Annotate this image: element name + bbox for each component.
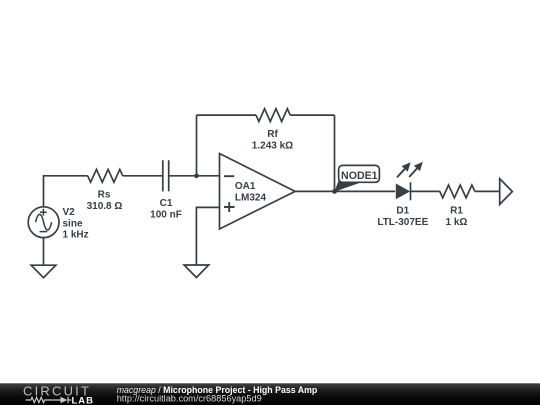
svg-text:1 kΩ: 1 kΩ	[446, 217, 468, 228]
svg-text:LAB: LAB	[72, 395, 95, 405]
footer logo schematic line	[26, 397, 72, 403]
wire C1 to op-amp inverting input	[170, 175, 220, 177]
svg-text:NODE1: NODE1	[341, 170, 378, 182]
svg-text:sine: sine	[63, 218, 83, 229]
svg-text:LTL-307EE: LTL-307EE	[377, 217, 428, 228]
svg-text:LM324: LM324	[235, 192, 267, 203]
LED D1 light arrow 2	[409, 162, 423, 177]
footer logo diode	[61, 397, 68, 403]
resistor Rf	[256, 109, 290, 122]
footer bar	[0, 383, 540, 405]
svg-text:100 nF: 100 nF	[150, 210, 182, 221]
wire V2 bottom to ground	[43, 238, 45, 266]
svg-text:D1: D1	[396, 205, 409, 216]
wire op-amp output to LED	[295, 190, 395, 192]
voltage source V2 minus sign	[40, 231, 48, 233]
wire feedback right vertical	[334, 115, 336, 191]
capacitor C1	[163, 160, 169, 191]
svg-text:1.243 kΩ: 1.243 kΩ	[252, 141, 293, 152]
wire feedback top left segment	[197, 114, 257, 116]
junction node NODE1 dot	[332, 189, 337, 194]
resistor Rs	[88, 169, 123, 182]
LED D1 light arrow 1	[397, 162, 411, 177]
wire feedback top right segment	[290, 114, 334, 116]
svg-text:OA1: OA1	[235, 181, 256, 192]
wire Rs to C1	[123, 175, 162, 177]
voltage source V2 circle	[28, 207, 59, 238]
output port flag	[500, 179, 513, 205]
svg-text:R1: R1	[450, 205, 463, 216]
svg-text:Rf: Rf	[267, 129, 278, 140]
op-amp OA1 body	[220, 154, 296, 230]
svg-text:C1: C1	[160, 198, 173, 209]
wire LED to R1	[411, 190, 440, 192]
net label NODE1 pointer	[334, 179, 360, 192]
svg-text:310.8 Ω: 310.8 Ω	[87, 201, 123, 212]
voltage source V2 plus sign	[40, 209, 47, 216]
net label NODE1 box	[339, 165, 380, 182]
svg-text:Rs: Rs	[98, 190, 111, 201]
ground symbol at V2	[31, 265, 56, 278]
wire feedback left vertical	[196, 115, 198, 176]
svg-text:http://circuitlab.com/cr68856y: http://circuitlab.com/cr68856yap5d9	[117, 393, 262, 403]
LED D1 triangle	[396, 184, 410, 200]
wire R1 to output port	[475, 190, 500, 192]
op-amp OA1 plus input sign	[224, 202, 235, 212]
junction node at C1 / feedback	[194, 173, 199, 178]
LED D1 cathode bar	[410, 182, 412, 200]
svg-text:V2: V2	[63, 207, 76, 218]
resistor R1	[440, 185, 475, 198]
svg-text:1 kHz: 1 kHz	[63, 230, 89, 241]
wire non-inverting input to ground	[196, 207, 219, 265]
voltage source V2 sine symbol	[36, 214, 52, 230]
wire V2 top to Rs	[44, 176, 88, 207]
op-amp OA1 minus input sign	[224, 175, 234, 177]
ground symbol at op-amp input	[184, 265, 209, 278]
